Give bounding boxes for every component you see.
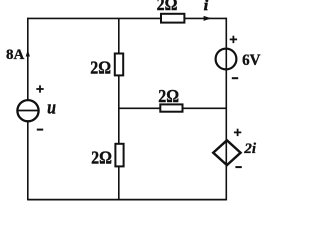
wire left lower [27, 122, 29, 201]
current arrow i [204, 16, 212, 21]
current source U1 (circle with bar) [17, 100, 38, 121]
wire top [28, 17, 227, 19]
label + of 6V [230, 36, 237, 43]
resistor R3 2ohm middle horizontal [160, 104, 182, 111]
dependent source U2 2i (diamond) [213, 140, 240, 165]
wire bottom [28, 199, 227, 201]
svg-text:u: u [47, 96, 56, 118]
svg-text:2Ω: 2Ω [91, 147, 112, 167]
svg-text:8A: 8A [6, 47, 25, 63]
svg-text:2Ω: 2Ω [90, 58, 111, 78]
wire right [225, 18, 227, 201]
current arrow 8A [26, 50, 30, 57]
svg-text:2Ω: 2Ω [158, 86, 179, 106]
wire middle vertical [118, 18, 120, 199]
svg-text:2i: 2i [243, 141, 257, 157]
resistor R2 2ohm middle upper [115, 54, 123, 76]
resistor R1 2ohm top [161, 14, 184, 23]
label - of u [37, 129, 43, 131]
voltage source V1 6V [216, 49, 237, 70]
label - of 6V [232, 77, 238, 79]
resistor R4 2ohm middle lower [115, 144, 123, 167]
label - of 2i [235, 166, 241, 168]
svg-text:2Ω: 2Ω [157, 0, 178, 14]
wire left upper [27, 18, 29, 100]
label + of 2i [234, 129, 241, 136]
svg-text:6V: 6V [242, 51, 261, 69]
wire middle horizontal [119, 107, 227, 109]
label + of u [36, 85, 43, 92]
svg-text:i: i [204, 0, 209, 14]
